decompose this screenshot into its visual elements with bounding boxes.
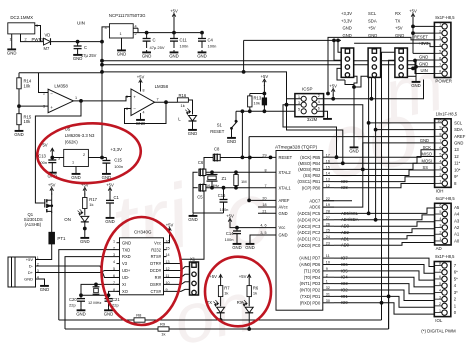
wire op2 out bbox=[155, 101, 178, 103]
svg-text:27: 27 bbox=[326, 216, 330, 220]
svg-text:3: 3 bbox=[439, 166, 441, 170]
wire U5 pin1 gnd bbox=[75, 167, 77, 172]
svg-text:3*: 3* bbox=[454, 290, 458, 295]
wire ch340 dcd to X1 bbox=[167, 267, 190, 271]
svg-text:C14: C14 bbox=[226, 231, 234, 236]
wire uin down bbox=[101, 42, 103, 158]
svg-text:3: 3 bbox=[105, 26, 107, 30]
connector X1 bbox=[190, 256, 199, 295]
wire s1 gnd bbox=[231, 131, 233, 136]
svg-text:7: 7 bbox=[439, 139, 441, 143]
wire icsp vcc bbox=[317, 95, 333, 99]
wire bus sda bbox=[374, 77, 377, 221]
wire h1 gnd bbox=[337, 68, 345, 80]
svg-text:Vcc: Vcc bbox=[279, 225, 286, 230]
svg-text:13: 13 bbox=[454, 147, 459, 152]
resistor R14 10k bbox=[17, 73, 32, 106]
annotation ellipse CH340 bbox=[102, 217, 182, 325]
label hdr1 nets bbox=[341, 11, 352, 38]
ground chip 3 5 bbox=[245, 242, 255, 250]
symbol +5V reset pullup bbox=[261, 74, 269, 94]
svg-text:+5V: +5V bbox=[409, 8, 417, 13]
symbol +5V R7 bbox=[209, 274, 222, 286]
wire PC bus to AD bbox=[334, 208, 435, 245]
wire usb D+ to UD+ bbox=[36, 271, 120, 273]
svg-text:+5V: +5V bbox=[26, 257, 34, 262]
svg-text:8: 8 bbox=[264, 168, 266, 172]
symbol +5V op2 bbox=[137, 74, 145, 91]
header JP3 4pin bbox=[395, 48, 408, 77]
wire xtal2 bbox=[202, 171, 276, 173]
node c47 tap bbox=[145, 31, 148, 34]
ground C11 bbox=[169, 50, 179, 58]
node U5 out bbox=[101, 156, 104, 159]
svg-text:C16: C16 bbox=[218, 193, 226, 198]
regulator U1 NCP1117ST50T3G bbox=[105, 13, 147, 38]
label power uin bbox=[421, 68, 428, 73]
svg-text:(INT0) PD2: (INT0) PD2 bbox=[300, 288, 321, 293]
wire U5 out bbox=[88, 157, 106, 159]
resistor R15 10k bbox=[17, 106, 32, 128]
wire PD bus to IOL bbox=[334, 258, 434, 314]
diode D1 reset bbox=[262, 96, 266, 107]
wire hdr3 gnd bbox=[407, 75, 416, 77]
wire adc6 gnd line bbox=[323, 143, 435, 207]
svg-text:LM358: LM358 bbox=[155, 84, 169, 89]
svg-text:GND: GND bbox=[188, 217, 198, 222]
svg-text:4: 4 bbox=[318, 100, 320, 104]
wire power gnd bbox=[415, 60, 435, 79]
capacitor C6 bbox=[198, 160, 206, 176]
symbol +5V U5 bbox=[40, 143, 54, 158]
svg-text:+3,3V: +3,3V bbox=[341, 18, 352, 23]
svg-text:UIN: UIN bbox=[421, 68, 428, 73]
node UIN junction bbox=[76, 40, 79, 43]
label ioh miso bbox=[422, 152, 432, 157]
svg-text:GND: GND bbox=[7, 50, 17, 55]
wire regulator pin1 gnd bbox=[121, 38, 123, 48]
wire bus rx bbox=[382, 52, 395, 320]
node tx join bbox=[219, 319, 222, 322]
svg-text:(T0) PD4: (T0) PD4 bbox=[304, 275, 321, 280]
wire jack pin2 to diode bbox=[21, 34, 44, 42]
symbol +5V vcc bbox=[226, 213, 234, 225]
svg-text:2: 2 bbox=[439, 173, 441, 177]
svg-text:GND: GND bbox=[279, 233, 288, 238]
wire aref stub bbox=[249, 199, 276, 201]
wire ch340 dtr bbox=[167, 158, 214, 264]
header ICSP bbox=[295, 86, 324, 122]
wire hdr3 5v bbox=[407, 67, 414, 70]
wire ch340 txd bbox=[59, 250, 117, 320]
svg-text:A1: A1 bbox=[454, 232, 460, 237]
symbol +5V R6 bbox=[239, 274, 251, 286]
svg-text:+5V: +5V bbox=[106, 182, 114, 187]
node on led bbox=[83, 227, 86, 230]
label hdr3 nets bbox=[395, 11, 404, 38]
node uin rail bbox=[101, 59, 104, 66]
svg-text:+5V: +5V bbox=[239, 274, 247, 279]
svg-text:5: 5 bbox=[113, 267, 115, 271]
svg-text:POWER: POWER bbox=[435, 79, 452, 84]
svg-text:A2: A2 bbox=[454, 225, 460, 230]
svg-text:AVcc: AVcc bbox=[279, 205, 288, 210]
wire reset top node bbox=[250, 92, 266, 98]
svg-text:12: 12 bbox=[454, 154, 459, 159]
ground C20 bbox=[76, 308, 86, 316]
svg-text:+3,3V: +3,3V bbox=[341, 11, 352, 16]
svg-text:47µ 25V: 47µ 25V bbox=[81, 53, 97, 58]
svg-text:6: 6 bbox=[318, 107, 320, 111]
label power gnd1 bbox=[419, 55, 428, 60]
svg-text:CH340G: CH340G bbox=[134, 229, 152, 234]
svg-text:GND: GND bbox=[73, 56, 83, 61]
wire hdr1 feed bbox=[0, 0, 1, 1]
svg-text:ICSP: ICSP bbox=[302, 86, 313, 91]
svg-text:9: 9 bbox=[439, 126, 441, 130]
wire diode to UIN node bbox=[51, 41, 101, 43]
ground C21 bbox=[104, 308, 114, 316]
svg-text:C6: C6 bbox=[198, 160, 204, 165]
svg-text:GND: GND bbox=[117, 51, 127, 56]
svg-text:XTAL1: XTAL1 bbox=[279, 185, 292, 190]
ground op2 bbox=[136, 118, 146, 126]
svg-text:5: 5 bbox=[439, 210, 441, 214]
ground C13 bbox=[48, 170, 58, 178]
svg-text:1: 1 bbox=[75, 96, 77, 100]
wire io0 vert bbox=[380, 301, 383, 320]
svg-text:C: C bbox=[153, 38, 156, 43]
svg-text:C1: C1 bbox=[114, 195, 120, 200]
svg-text:22p: 22p bbox=[112, 302, 119, 307]
svg-text:GND: GND bbox=[24, 277, 33, 282]
ground led L bbox=[188, 128, 198, 136]
svg-text:CTS#: CTS# bbox=[151, 289, 162, 294]
svg-text:5*: 5* bbox=[454, 276, 458, 281]
svg-text:(AIN1) PD7: (AIN1) PD7 bbox=[299, 256, 321, 261]
svg-text:GND: GND bbox=[169, 53, 179, 58]
wire usb gnd bbox=[40, 279, 45, 284]
svg-text:6: 6 bbox=[439, 204, 441, 208]
svg-text:AREF: AREF bbox=[279, 198, 290, 203]
svg-text:(MOSI) PB3: (MOSI) PB3 bbox=[298, 167, 321, 172]
svg-text:(AIN0) PD6: (AIN0) PD6 bbox=[299, 262, 321, 267]
svg-text:RESET: RESET bbox=[414, 35, 428, 40]
svg-text:UIN: UIN bbox=[77, 21, 85, 26]
svg-text:(ICP) PB0: (ICP) PB0 bbox=[302, 185, 321, 190]
svg-text:2: 2 bbox=[318, 94, 320, 98]
wire op1 pin3 bbox=[19, 105, 48, 107]
label UIN bbox=[77, 21, 85, 26]
svg-text:16 MHz: 16 MHz bbox=[206, 184, 219, 188]
svg-text:(ADC3) PC3: (ADC3) PC3 bbox=[298, 224, 321, 229]
svg-text:GND: GND bbox=[245, 245, 255, 250]
wire op1 out to op2 bbox=[73, 97, 131, 101]
svg-text:UD-: UD- bbox=[122, 275, 130, 280]
ic U4 right pin labels bbox=[298, 153, 359, 305]
wire bus h2 5v bbox=[332, 68, 373, 100]
svg-text:8x1F-H8,5: 8x1F-H8,5 bbox=[435, 15, 455, 20]
svg-text:D-: D- bbox=[29, 264, 34, 269]
led ON bbox=[64, 209, 89, 222]
svg-text:R9: R9 bbox=[160, 322, 166, 327]
svg-text:3: 3 bbox=[439, 224, 441, 228]
wire power p4 3v3 bbox=[354, 43, 434, 46]
wire icsp sck bbox=[283, 105, 338, 159]
svg-text:100n: 100n bbox=[220, 207, 229, 212]
wire op1 pin2 bbox=[39, 73, 49, 93]
switch S1 RESET bbox=[210, 119, 237, 134]
svg-text:12 MHz: 12 MHz bbox=[88, 300, 101, 305]
svg-text:1k: 1k bbox=[224, 290, 228, 295]
svg-text:(*) DIGITAL PWM: (*) DIGITAL PWM bbox=[421, 329, 456, 334]
wire ON led gnd bbox=[84, 221, 86, 235]
wire h1 gnd3 bbox=[345, 80, 354, 85]
wire Q1 gate bbox=[44, 202, 45, 204]
wire rail2 bbox=[102, 65, 416, 67]
wire aref long line bbox=[248, 137, 435, 202]
svg-text:13: 13 bbox=[326, 178, 330, 182]
diode VD M7 bbox=[44, 33, 51, 51]
ground S1 bbox=[227, 136, 237, 144]
svg-text:GND: GND bbox=[142, 53, 152, 58]
led RX bbox=[237, 300, 254, 313]
svg-text:SCL: SCL bbox=[368, 11, 377, 16]
svg-text:XI: XI bbox=[122, 282, 126, 287]
svg-text:R8: R8 bbox=[136, 313, 142, 318]
svg-text:C: C bbox=[84, 45, 87, 50]
svg-text:X1: X1 bbox=[190, 256, 196, 261]
svg-text:47µ 25V: 47µ 25V bbox=[150, 45, 165, 50]
svg-text:(TXD) PD1: (TXD) PD1 bbox=[300, 294, 321, 299]
wire 3v3 rail top bbox=[244, 39, 341, 41]
svg-text:PT1: PT1 bbox=[57, 236, 66, 241]
symbol +5V icsp bbox=[329, 83, 337, 95]
op-amp U2B LM358 bbox=[126, 84, 169, 115]
svg-text:25: 25 bbox=[326, 229, 330, 233]
wire crystal node bbox=[80, 294, 110, 297]
svg-text:1k: 1k bbox=[181, 103, 185, 108]
svg-text:DTR#: DTR# bbox=[150, 261, 161, 266]
label ioh ss bbox=[423, 165, 429, 170]
wire TX led down bbox=[220, 313, 222, 320]
wire UIN up to regulator bbox=[102, 27, 110, 42]
wire serial io1 bbox=[65, 328, 158, 330]
svg-text:A3: A3 bbox=[454, 218, 460, 223]
svg-text:GND: GND bbox=[227, 139, 237, 144]
svg-text:7: 7 bbox=[157, 97, 159, 101]
svg-text:AREF: AREF bbox=[454, 134, 466, 139]
symbol +5V C1 bbox=[106, 182, 114, 194]
svg-text:2: 2 bbox=[25, 38, 27, 42]
symbol +5V Q1 bbox=[48, 182, 56, 194]
node divider bbox=[18, 105, 21, 108]
wire gnd row 3 5 bbox=[250, 235, 276, 242]
resistor R8 1k bbox=[134, 313, 145, 328]
svg-text:1: 1 bbox=[72, 161, 74, 165]
svg-text:AD: AD bbox=[436, 246, 442, 251]
wire op2 gnd bbox=[140, 113, 142, 118]
svg-text:6: 6 bbox=[439, 146, 441, 150]
svg-text:23: 23 bbox=[326, 241, 330, 245]
wire h1 3v3 a bbox=[337, 39, 342, 52]
svg-text:ON: ON bbox=[64, 217, 71, 222]
svg-text:+5V: +5V bbox=[166, 222, 174, 227]
svg-text:R232: R232 bbox=[151, 247, 162, 252]
svg-text:10x1F-H8,5: 10x1F-H8,5 bbox=[436, 111, 458, 116]
svg-text:GND: GND bbox=[349, 148, 359, 153]
label U5 code bbox=[65, 140, 78, 145]
wire reset node bbox=[204, 157, 263, 159]
svg-text:C21: C21 bbox=[112, 297, 120, 302]
svg-text:RI#: RI# bbox=[155, 275, 162, 280]
wire led L gnd bbox=[192, 121, 194, 128]
wire adc7 stub bbox=[323, 200, 352, 202]
svg-text:RTS#: RTS# bbox=[151, 254, 162, 259]
svg-text:MISO: MISO bbox=[422, 152, 432, 157]
wire +5V arrow bbox=[173, 20, 175, 33]
svg-text:IOL: IOL bbox=[435, 318, 443, 323]
label ioh gnd bbox=[420, 138, 429, 143]
wire h1 3v3 b bbox=[333, 39, 342, 60]
svg-text:C5: C5 bbox=[197, 195, 203, 200]
svg-text:Z1: Z1 bbox=[222, 176, 228, 181]
svg-text:22p: 22p bbox=[69, 302, 76, 307]
led TX bbox=[207, 300, 225, 313]
label +3.3V out bbox=[110, 147, 122, 152]
svg-text:2: 2 bbox=[326, 273, 328, 277]
watermark bbox=[103, 46, 450, 345]
ground xtal bbox=[188, 214, 198, 222]
svg-text:5: 5 bbox=[298, 108, 300, 112]
ic U4 ATmega328 TQFP bbox=[258, 144, 323, 310]
node op1 out bbox=[80, 100, 83, 103]
node regulator input bbox=[101, 40, 104, 43]
svg-text:2: 2 bbox=[83, 153, 85, 157]
wire jack pin3 bbox=[35, 26, 41, 42]
wire U5 in bbox=[52, 157, 63, 159]
svg-text:7: 7 bbox=[113, 281, 115, 285]
svg-text:+5V: +5V bbox=[170, 8, 178, 13]
node c4 tap bbox=[201, 31, 204, 34]
svg-text:(A1SHB): (A1SHB) bbox=[25, 222, 42, 227]
capacitor C 47u 25V input bbox=[74, 42, 97, 59]
connector IOL bbox=[434, 254, 458, 323]
wire ch340 cts to X1 bbox=[167, 289, 190, 291]
capacitor C5 bbox=[197, 184, 206, 200]
wire bus sda branch bbox=[374, 128, 434, 131]
svg-text:8x1F-H8,5: 8x1F-H8,5 bbox=[435, 254, 455, 259]
resistor R9 1k bbox=[158, 322, 169, 337]
svg-text:6*: 6* bbox=[454, 270, 458, 275]
svg-text:+3,3V: +3,3V bbox=[110, 147, 122, 152]
wire 3v3 top link bbox=[242, 40, 245, 73]
wire section top bbox=[101, 71, 288, 107]
svg-text:RXD: RXD bbox=[122, 254, 131, 259]
svg-text:4, 6: 4, 6 bbox=[260, 224, 266, 228]
svg-text:1k: 1k bbox=[253, 290, 257, 295]
svg-text:NCP1117ST50T3G: NCP1117ST50T3G bbox=[109, 13, 146, 18]
wire power uin bbox=[414, 59, 435, 73]
resistor R17 1k bbox=[83, 194, 98, 216]
svg-text:(ADC4) PC4: (ADC4) PC4 bbox=[298, 217, 321, 222]
svg-text:(ADC1) PC1: (ADC1) PC1 bbox=[298, 237, 321, 242]
label U5 part bbox=[65, 133, 95, 138]
svg-text:GND: GND bbox=[197, 53, 207, 58]
svg-text:GND: GND bbox=[105, 219, 115, 224]
svg-text:GND: GND bbox=[80, 239, 90, 244]
svg-text:(ADC2) PC2: (ADC2) PC2 bbox=[298, 230, 321, 235]
wire R14 top link bbox=[19, 72, 102, 74]
svg-text:SDA: SDA bbox=[368, 18, 377, 23]
wire xtal gnd left bbox=[193, 172, 198, 213]
svg-text:10k: 10k bbox=[254, 100, 260, 105]
ic U3 CH340G bbox=[113, 229, 170, 294]
led L bbox=[178, 108, 196, 121]
svg-text:10*: 10* bbox=[454, 167, 461, 172]
svg-text:4: 4 bbox=[439, 289, 441, 293]
node rx join bbox=[248, 328, 251, 331]
svg-text:C11: C11 bbox=[180, 38, 188, 43]
svg-text:DSR#: DSR# bbox=[150, 282, 162, 287]
capacitor C13 100n bbox=[38, 153, 56, 170]
svg-text:(INT1) PD3: (INT1) PD3 bbox=[300, 281, 321, 286]
wire chip reset stub bbox=[241, 156, 276, 159]
ground jack bbox=[7, 47, 17, 55]
wire bus tx bbox=[389, 60, 395, 329]
annotation ellipse U5 bbox=[36, 121, 143, 186]
svg-text:A0: A0 bbox=[454, 238, 460, 243]
svg-text:GND: GND bbox=[76, 311, 86, 316]
power jack J1 DC2.1MMX label bbox=[10, 15, 33, 20]
svg-text:MOSI: MOSI bbox=[422, 158, 432, 163]
ground ON led bbox=[80, 236, 90, 244]
wire bus h2 gnd bbox=[353, 76, 369, 88]
capacitor C21 22p bbox=[105, 295, 121, 308]
svg-text:−: − bbox=[133, 107, 136, 112]
capacitor C8 bbox=[213, 146, 220, 161]
svg-text:LM358: LM358 bbox=[54, 84, 68, 89]
header JP2 4pin bbox=[368, 48, 381, 77]
svg-text:4: 4 bbox=[113, 260, 115, 264]
ground headers mid bbox=[349, 145, 359, 153]
svg-text:11*: 11* bbox=[454, 161, 460, 166]
capacitor C11 100n bbox=[170, 33, 188, 49]
svg-text:GND: GND bbox=[419, 55, 428, 60]
wire op1 out to gate bbox=[35, 101, 81, 203]
wire +5V rail bbox=[133, 28, 202, 32]
svg-text:GND: GND bbox=[232, 245, 242, 250]
svg-text:RESET: RESET bbox=[279, 155, 293, 160]
svg-text:A5: A5 bbox=[454, 205, 460, 210]
wire ch340 dsr to X1 bbox=[167, 282, 190, 285]
node U5 in bbox=[51, 156, 54, 159]
svg-text:2: 2 bbox=[439, 230, 441, 234]
svg-text:(662K): (662K) bbox=[65, 140, 78, 145]
svg-text:1: 1 bbox=[113, 239, 115, 243]
wire reset drop bbox=[241, 110, 244, 157]
svg-text:100n: 100n bbox=[180, 44, 189, 49]
wire ch340 ri to X1 bbox=[167, 274, 190, 277]
capacitor C15 100n bbox=[102, 157, 123, 171]
svg-text:C20: C20 bbox=[69, 297, 77, 302]
svg-text:(SCK) PB5: (SCK) PB5 bbox=[300, 155, 321, 160]
wire serial io0 b bbox=[145, 319, 382, 321]
svg-text:XO: XO bbox=[122, 289, 128, 294]
svg-text:5: 5 bbox=[439, 153, 441, 157]
svg-text:7: 7 bbox=[439, 268, 441, 272]
wire chip right stubs bbox=[323, 157, 334, 303]
